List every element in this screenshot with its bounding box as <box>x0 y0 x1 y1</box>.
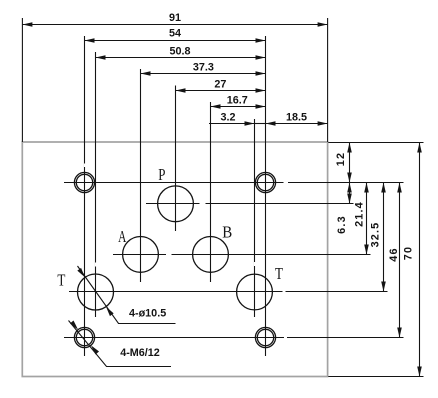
svg-text:37.3: 37.3 <box>193 62 214 74</box>
svg-text:70: 70 <box>403 246 415 260</box>
svg-text:3.2: 3.2 <box>220 112 235 124</box>
svg-text:P: P <box>158 165 165 184</box>
svg-text:6.3: 6.3 <box>336 215 348 234</box>
svg-text:T: T <box>57 270 65 289</box>
svg-text:T: T <box>275 264 283 283</box>
svg-text:21.4: 21.4 <box>354 201 366 227</box>
svg-text:A: A <box>118 227 127 246</box>
svg-text:4-ø10.5: 4-ø10.5 <box>129 307 166 319</box>
svg-text:27: 27 <box>214 78 226 90</box>
svg-text:12: 12 <box>335 152 347 166</box>
svg-text:54: 54 <box>169 28 181 40</box>
svg-text:46: 46 <box>388 247 400 261</box>
svg-text:91: 91 <box>169 12 181 24</box>
svg-text:4-M6/12: 4-M6/12 <box>120 347 160 359</box>
svg-text:50.8: 50.8 <box>169 45 190 57</box>
svg-text:B: B <box>222 222 232 241</box>
svg-text:16.7: 16.7 <box>227 94 248 106</box>
svg-text:32.5: 32.5 <box>370 222 382 248</box>
svg-text:18.5: 18.5 <box>286 112 307 124</box>
